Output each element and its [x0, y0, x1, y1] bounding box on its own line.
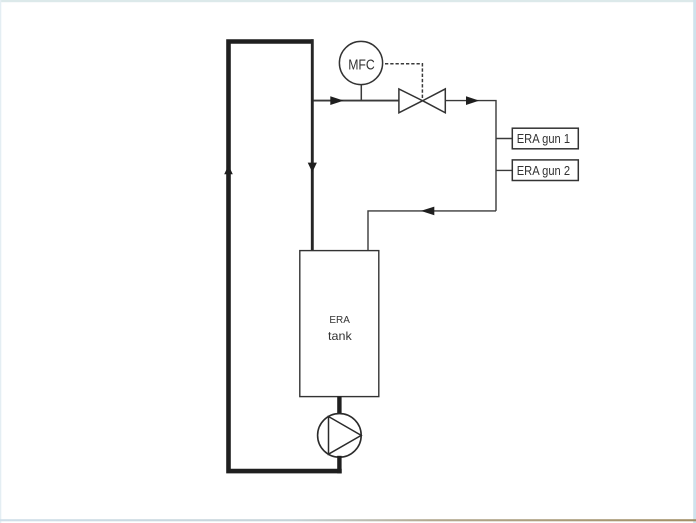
ERA tank [300, 251, 379, 397]
wire: stub to ERA gun 2 [496, 169, 512, 171]
flow arrow up on left loop side [224, 165, 233, 174]
flow arrow down on loop right side [308, 163, 317, 173]
flow arrow right after valve [466, 96, 479, 105]
wire: supply line from loop to valve [314, 100, 400, 102]
MFC mass flow controller [339, 41, 382, 84]
wire: thick circulation loop (left, top, bottom bars) [229, 42, 342, 472]
wire: loop right side down to tank [311, 39, 314, 251]
svg-text:tank: tank [328, 329, 353, 343]
wire: MFC stem [360, 84, 362, 101]
box ERA gun 1 [512, 128, 578, 149]
svg-text:ERA gun 2: ERA gun 2 [517, 164, 570, 178]
wire: tank bottom to pump [337, 397, 341, 415]
svg-text:ERA gun 1: ERA gun 1 [517, 132, 570, 146]
svg-text:MFC: MFC [348, 57, 375, 74]
box ERA gun 2 [512, 160, 578, 181]
flow arrow left on return line [421, 207, 435, 216]
wire: return line from manifold to tank top [368, 211, 496, 251]
control valve (bowtie) [399, 89, 423, 113]
flow arrow right before MFC tap [330, 96, 343, 105]
svg-text:ERA: ERA [329, 315, 350, 326]
wire: stub to ERA gun 1 [496, 138, 512, 140]
dashed control signal line MFC to valve [385, 64, 422, 99]
wire: valve to gun manifold corner [446, 101, 496, 211]
pump [318, 414, 362, 458]
wire: pump to bottom bar [337, 456, 341, 474]
